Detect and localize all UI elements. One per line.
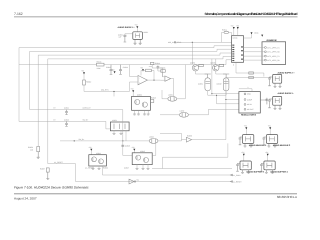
cap left: [268, 77, 273, 86]
+5V above Q0921: [132, 90, 134, 92]
capacitor C0921: [123, 35, 126, 42]
svg-text:MIC1: MIC1: [247, 93, 251, 96]
cap right of regulator: [260, 98, 268, 105]
svg-text:C0945: C0945: [125, 145, 130, 148]
svg-text:INT2_APPS_TX: INT2_APPS_TX: [267, 55, 280, 58]
svg-text:U0911: U0911: [233, 37, 238, 40]
svg-text:C0943: C0943: [106, 66, 111, 69]
svg-text:COMP: COMP: [247, 98, 253, 101]
UL_RESET wire bottom left: [48, 164, 128, 182]
svg-text:U0941: U0941: [96, 152, 101, 155]
capacitor C0944: [119, 65, 122, 75]
svg-text:INT1_APPS_RX: INT1_APPS_RX: [267, 51, 280, 54]
verticals to regulator: [209, 59, 239, 109]
bead L0942 oval: [149, 138, 158, 143]
transistor Q0932: [192, 65, 198, 71]
grounds: [133, 114, 150, 115]
wire box left to cap: [125, 34, 133, 35]
svg-text:Q0921: Q0921: [137, 94, 142, 97]
grounds box B: [137, 165, 148, 169]
wires Q row: [196, 59, 227, 74]
+5V above op-amp A: [142, 69, 144, 71]
off page arrows: [231, 174, 233, 176]
wire bus drop to box B: [123, 141, 132, 156]
resistor right of Q0932: [199, 64, 204, 66]
wire into op-amp plus: [130, 65, 138, 82]
capacitor C0946: [157, 66, 160, 70]
svg-text:AUDIO SUPPLY -: AUDIO SUPPLY -: [278, 92, 295, 95]
svg-text:U0942: U0942: [140, 150, 145, 153]
svg-text:UL_RESET: UL_RESET: [54, 161, 63, 164]
svg-text:6816953H01-A: 6816953H01-A: [277, 195, 297, 199]
leads from box bottom: [135, 110, 149, 114]
svg-text:R0911: R0911: [222, 28, 227, 31]
svg-text:Schematics, Component Location: Schematics, Component Location Diagrams,…: [204, 12, 297, 16]
bottom long wires: [152, 168, 232, 170]
resistor R0943 right of Q0921 box: [150, 100, 153, 103]
feedback resistor B: [151, 62, 154, 64]
ground under R0955: [37, 152, 40, 159]
svg-text:UL_SWB+: UL_SWB+: [233, 174, 241, 177]
bead L0931: [168, 96, 177, 101]
pin marks inside: [232, 45, 243, 62]
svg-text:R0960: R0960: [103, 166, 108, 169]
transistor Q0933: [213, 65, 219, 71]
resistor R0945: [161, 70, 166, 73]
capsule C0931: [205, 78, 211, 91]
transistor box U0921: [133, 32, 143, 40]
svg-text:Q0933: Q0933: [210, 61, 215, 64]
wire top path to triangle: [160, 133, 181, 139]
svg-text:C0947: C0947: [124, 166, 129, 169]
wire resistor down: [83, 85, 85, 91]
svg-text:AUDIO BUFFER 2: AUDIO BUFFER 2: [273, 144, 291, 147]
cap left: [268, 99, 273, 108]
svg-text:MIC_RTN: MIC_RTN: [101, 89, 109, 92]
svg-text:8: 8: [233, 63, 234, 66]
buffer triangle mid: [186, 137, 191, 142]
bus after bead: [158, 140, 186, 141]
svg-text:AUDIO SUPPLY +: AUDIO SUPPLY +: [118, 26, 136, 29]
op-amp U0922-B: [165, 76, 171, 81]
junction: [192, 42, 193, 43]
wire bus nested loop 1: [19, 46, 232, 122]
output of triangle: [192, 139, 226, 141]
bead L0932: [179, 112, 188, 117]
grounds box A: [93, 166, 103, 175]
bottom mid wire loop: [163, 143, 228, 157]
svg-text:AUDIO BUFFER 4: AUDIO BUFFER 4: [270, 171, 288, 174]
buffer cell 4: [260, 151, 288, 174]
vertical from loop2 label line to bus: [122, 110, 124, 141]
box: [273, 74, 282, 83]
output wire: [154, 79, 160, 81]
buffer cell 3: [236, 151, 264, 174]
svg-text:U0931: U0931: [112, 119, 117, 122]
svg-text:INT2_APPS_RX: INT2_APPS_RX: [267, 59, 280, 62]
+5V arrow box B: [133, 149, 135, 151]
wire bus nested loop 3: [38, 53, 231, 146]
svg-text:L0942: L0942: [149, 135, 154, 138]
svg-text:MX IN: MX IN: [247, 103, 252, 106]
capsule C0932: [223, 78, 229, 91]
svg-text:R0941: R0941: [97, 60, 102, 63]
capacitor C0945 on drop: [121, 145, 124, 146]
svg-text:R0959: R0959: [187, 134, 192, 137]
wire bus nested loop 4: [48, 57, 232, 164]
wire bus branch y64.6: [19, 60, 232, 65]
grounds: [274, 83, 277, 87]
svg-text:+: +: [139, 82, 140, 84]
svg-text:UNSW_B+: UNSW_B+: [83, 107, 91, 110]
svg-text:UL_RESET: UL_RESET: [85, 167, 94, 170]
resistor R0942: [83, 80, 86, 85]
svg-text:REGULATOR B: REGULATOR B: [241, 114, 257, 117]
svg-text:SW_B+: SW_B+: [83, 119, 89, 122]
svg-text:R0943: R0943: [151, 97, 156, 100]
wire from +5V to U0921: [136, 28, 138, 32]
svg-text:C0931: C0931: [198, 83, 203, 86]
op-amp B input wire: [160, 79, 165, 81]
svg-text:Figure 7-106. HUD4022A Secure: Figure 7-106. HUD4022A Secure GGM80 Sche…: [14, 186, 89, 190]
svg-text:R0957: R0957: [40, 168, 45, 171]
wire vertical: [83, 74, 85, 80]
wire to IC: [176, 41, 232, 43]
svg-text:AUDIO SUPPLY +: AUDIO SUPPLY +: [278, 71, 296, 74]
grounds under U0931: [114, 131, 121, 134]
+5V arrow box A: [90, 149, 92, 151]
buffer cell 2: [263, 125, 291, 148]
wire box B right up to bead line: [152, 143, 156, 155]
svg-text:C0932: C0932: [217, 83, 222, 86]
resistor R0941 on bus: [97, 63, 105, 66]
svg-text:MX OUT: MX OUT: [247, 108, 254, 111]
svg-text:Q0932: Q0932: [190, 61, 195, 64]
svg-text:August 24, 2007: August 24, 2007: [14, 196, 37, 200]
+5V arrow op-amp: [114, 71, 116, 73]
ground under: [46, 172, 49, 180]
box A U0941: [89, 155, 107, 166]
svg-text:R0944: R0944: [155, 62, 160, 65]
capacitor C0943: [110, 65, 113, 75]
wire junction down: [191, 42, 193, 64]
wire bus loop1 into box: [106, 121, 111, 128]
capacitor C0941: [65, 110, 68, 115]
IC top wires to +5V pair: [234, 29, 238, 36]
svg-text:L0931: L0931: [168, 93, 173, 96]
svg-text:B+: B+: [54, 107, 56, 110]
small resistor left of IC top: [224, 31, 229, 33]
svg-text:U0921: U0921: [143, 31, 148, 34]
op-amp U0922-A: [138, 75, 147, 84]
svg-text:L0932: L0932: [180, 109, 185, 112]
transistors inside: [135, 99, 140, 104]
connector rows: [265, 46, 281, 62]
resistor right of Q0933: [219, 64, 224, 66]
+5V arrow: [83, 72, 85, 74]
svg-text:UL_RESET: UL_RESET: [233, 180, 242, 183]
feedback loop wires B: [149, 65, 165, 77]
capacitor C0942: [65, 121, 68, 126]
feedback resistor: [146, 69, 152, 72]
svg-text:B+: B+: [54, 119, 56, 122]
IC top right wire: [244, 35, 252, 39]
svg-text:C0942: C0942: [64, 119, 69, 122]
wire bus nested loop 2: [30, 49, 232, 109]
MIC wire: [84, 82, 130, 96]
lead right of box down to bus: [125, 131, 127, 141]
header rule: [14, 16, 298, 18]
svg-text:.1uF: .1uF: [118, 36, 121, 39]
resistor on UL_RESET drop: [46, 168, 49, 172]
svg-text:SW_B+: SW_B+: [79, 138, 85, 141]
svg-text:J0911: J0911: [254, 31, 259, 34]
svg-text:C0941: C0941: [64, 107, 69, 110]
top wire over regulator: [239, 89, 252, 92]
wires IC to connector: [244, 48, 265, 61]
svg-text:GGM80 8P: GGM80 8P: [267, 39, 278, 42]
svg-text:INT1_APPS_TX: INT1_APPS_TX: [267, 46, 280, 49]
grounds: [274, 105, 277, 109]
wire from IC bottom down: [235, 62, 237, 73]
footer rule: [14, 193, 297, 195]
output B to vertical: [171, 79, 174, 97]
resistor R0955 on bus loop3: [37, 147, 40, 152]
svg-text:C0944: C0944: [123, 66, 128, 69]
box B U0942: [132, 153, 152, 165]
svg-text:7-162: 7-162: [14, 12, 23, 16]
bottom buffer triangle: [129, 179, 134, 184]
buffer cell 1: [239, 125, 267, 148]
svg-text:R0942: R0942: [86, 80, 91, 83]
grounds under U0921: [134, 39, 137, 44]
svg-text:1: 1: [248, 86, 249, 89]
